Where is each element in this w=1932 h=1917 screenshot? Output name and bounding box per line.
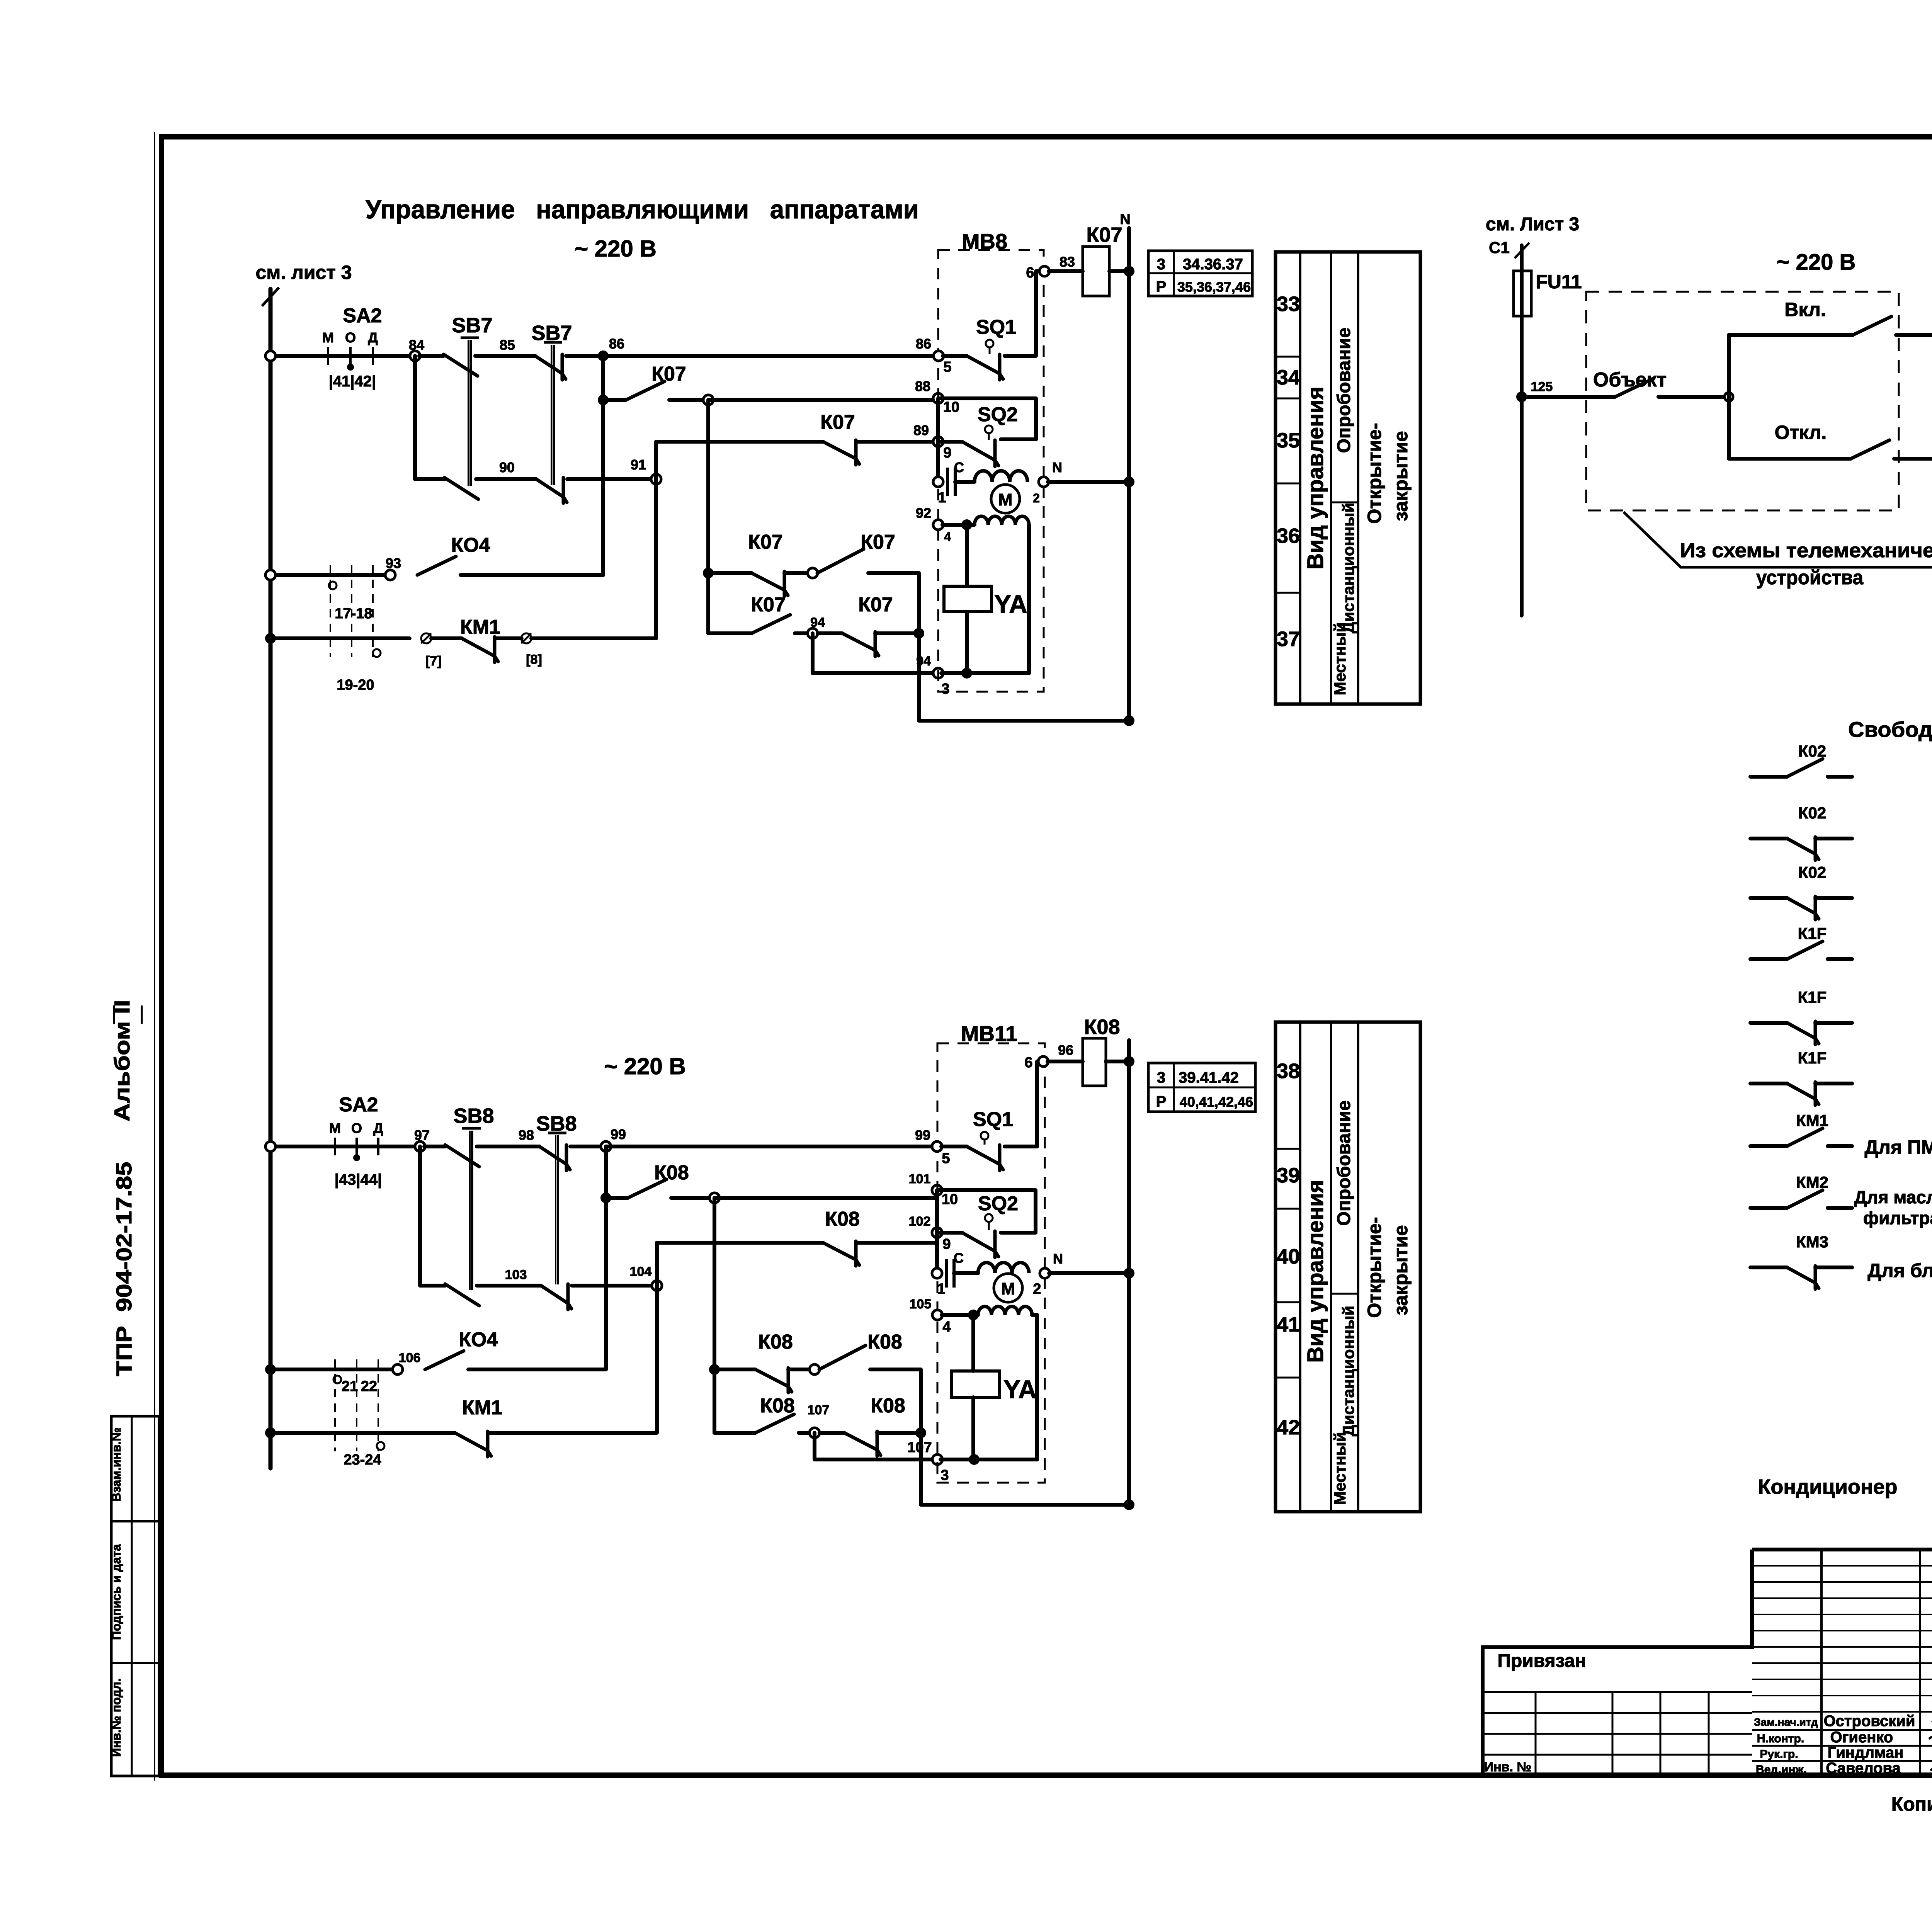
contact blade (NO) contact Объект <box>1615 378 1654 397</box>
wire free contact КМ3 col1 y3280 left lead <box>1750 1266 1787 1269</box>
svg-text:SQ2: SQ2 <box>978 403 1018 426</box>
svg-text:SA2: SA2 <box>339 1094 378 1116</box>
svg-text:Савелова: Савелова <box>1826 1760 1901 1777</box>
table row divider 3 <box>1276 1301 1300 1303</box>
label ref 39.41.42 <box>1179 1069 1239 1086</box>
svg-text:85: 85 <box>500 337 515 353</box>
svg-text:см. лист 3: см. лист 3 <box>255 262 352 283</box>
label label С1 <box>1489 238 1510 257</box>
brake solenoid YA (bottom) <box>951 1371 1000 1397</box>
node node 91 <box>651 474 661 484</box>
junction bus node KM1b <box>265 1427 276 1438</box>
wire Объект out to junction <box>1658 395 1726 399</box>
svg-text:Зам.нач.итд: Зам.нач.итд <box>1754 1716 1818 1728</box>
node node 2 b <box>1040 1268 1050 1278</box>
drawing frame border <box>162 137 1932 1775</box>
wire node107 drop to row 3777 <box>815 1433 934 1459</box>
ref box divider h <box>1148 272 1252 274</box>
label label 107 b <box>907 1439 932 1456</box>
wire free contact КМ2 col1 y3126 right lead <box>1828 1206 1852 1210</box>
svg-text:К07: К07 <box>1086 223 1122 247</box>
wire row1b SA2 to node97 <box>321 1145 420 1148</box>
wire YA bottom wire b <box>971 1397 975 1459</box>
junction N junction at coil <box>1124 266 1134 277</box>
svg-text:Привязан: Привязан <box>1497 1651 1586 1671</box>
junction node 125 <box>1516 391 1527 402</box>
node node 102 <box>932 1228 942 1238</box>
label label см. Лист 3 (right) <box>1486 214 1579 235</box>
label label 1 (cap row) <box>938 490 946 506</box>
svg-text:1: 1 <box>938 490 946 506</box>
ref box 3/Р (top circuit) <box>1148 251 1252 296</box>
junction bus node KO4b <box>265 1364 276 1375</box>
svg-text:SQ1: SQ1 <box>976 316 1016 338</box>
Альбом II underline <box>141 1006 143 1023</box>
svg-text:[7]: [7] <box>425 654 442 668</box>
svg-text:40: 40 <box>1277 1245 1300 1268</box>
label label Инв. № подл. <box>109 1678 123 1757</box>
label label Кондиционер <box>1758 1475 1897 1499</box>
svg-text:КМ3: КМ3 <box>1796 1233 1828 1251</box>
wire KM1 to node91 vertical <box>531 479 656 638</box>
svg-text:КМ1: КМ1 <box>460 616 500 638</box>
wire row2 start <box>603 398 626 402</box>
svg-text:М: М <box>329 1120 341 1136</box>
svg-text:КМ2: КМ2 <box>1796 1173 1828 1191</box>
junction YA top junction b <box>968 1310 979 1320</box>
node node 92 <box>933 520 943 530</box>
contact blade (NC) limit switch SQ1 blade <box>967 354 1003 380</box>
wire row2b after contact <box>671 1196 714 1200</box>
label note Для масляного <box>1854 1187 1932 1207</box>
label heading Свободные контакты <box>1848 717 1932 742</box>
svg-text:см. Лист 3: см. Лист 3 <box>1486 214 1579 235</box>
node node 94 at box edge <box>933 668 943 678</box>
SQ1 actuator circle (bottom) <box>981 1132 988 1145</box>
wire junction to lower branch <box>1729 397 1851 459</box>
contact blade (NC) free contact КМ3 col1 y3280 <box>1787 1266 1819 1289</box>
svg-text:96: 96 <box>1058 1042 1073 1058</box>
svg-text:К1F: К1F <box>1798 988 1827 1006</box>
svg-text:~ 220 В: ~ 220 В <box>1777 250 1856 275</box>
label ref 34.36.37 <box>1183 256 1243 273</box>
junction junction upper KO7 row <box>703 568 714 578</box>
svg-text:94: 94 <box>810 615 825 630</box>
wire row1b segment bus to SA2 <box>270 1145 321 1148</box>
wire free contact К1F col1 y2804 left lead <box>1750 1082 1787 1085</box>
node node 101 <box>932 1185 942 1195</box>
table row divider 4 <box>1276 1377 1300 1379</box>
wire row1 node84 to SB7-1 <box>419 354 444 358</box>
svg-text:~ 220 В: ~ 220 В <box>604 1053 686 1079</box>
label label SA2 <box>343 304 382 327</box>
label table row number 41 <box>1277 1313 1300 1336</box>
contact blade (NC) contact K08 parallel upper-left <box>755 1368 792 1393</box>
left margin divider 2 <box>111 1662 159 1664</box>
wire row1 85 segment <box>475 354 535 358</box>
title block signature grid verticals <box>1821 1550 1932 1776</box>
svg-text:101: 101 <box>909 1172 931 1186</box>
svg-text:2: 2 <box>1033 491 1040 505</box>
label table text Вид управления <box>1303 1180 1328 1362</box>
svg-text:106: 106 <box>399 1351 421 1365</box>
wire cap to winding b <box>954 1271 978 1275</box>
label sig label Н.контр <box>1757 1732 1804 1745</box>
svg-text:125: 125 <box>1531 379 1553 394</box>
relay coil KO7 <box>1083 247 1109 296</box>
label label 91 <box>631 457 646 473</box>
plug circle on 23-24 tick <box>377 1442 384 1450</box>
svg-text:Рук.гр.: Рук.гр. <box>1760 1748 1798 1761</box>
contact blade (NC) contact K07 row3 <box>823 440 859 465</box>
wire free contact К02 col1 y2010 right lead <box>1828 775 1852 779</box>
label label 93 <box>386 555 401 571</box>
plug circle on 21-22 tick <box>333 1376 341 1383</box>
contact blade (NC) SB8-2 lower blade <box>541 1284 571 1310</box>
label label К07 row2 <box>651 363 686 385</box>
label label SB7 (second) <box>531 321 572 345</box>
wire cap to winding <box>955 480 975 484</box>
svg-text:41: 41 <box>1277 1313 1300 1336</box>
svg-text:МВ8: МВ8 <box>962 229 1007 253</box>
label label 4 b <box>942 1319 951 1335</box>
signal table <box>1276 252 1420 704</box>
label table text Открытие- <box>1364 1217 1385 1318</box>
junction junction upper KO8 row <box>709 1364 720 1375</box>
label label N (top bus) <box>1120 211 1130 228</box>
wire row KO4b from bus <box>270 1368 398 1371</box>
svg-text:103: 103 <box>505 1267 527 1282</box>
svg-text:36: 36 <box>1277 524 1300 548</box>
table row divider 3 <box>1276 483 1300 485</box>
svg-text:93: 93 <box>386 555 401 571</box>
svg-text:Откл.: Откл. <box>1775 422 1827 443</box>
svg-text:3: 3 <box>941 681 949 697</box>
wire free contact К02 col1 y2010 left lead <box>1750 775 1787 779</box>
svg-text:К07: К07 <box>861 531 895 553</box>
svg-text:Для ПМЛ: Для ПМЛ <box>1864 1136 1932 1158</box>
node node 84 <box>410 351 420 361</box>
svg-text:Открытие-: Открытие- <box>1364 423 1385 524</box>
label label Д <box>368 330 378 345</box>
svg-text:Д: Д <box>373 1120 383 1136</box>
label label 41 42 <box>329 373 376 390</box>
label label К08 p3 <box>760 1395 795 1417</box>
svg-text:Вкл.: Вкл. <box>1784 299 1826 320</box>
svg-text:91: 91 <box>631 457 646 473</box>
svg-text:6: 6 <box>1024 1055 1032 1071</box>
wire free contact К02 col1 y2170 left lead <box>1750 837 1787 840</box>
wire row1 long line to SQ1 <box>603 354 939 358</box>
plug circle on 19-20 tick <box>373 649 381 657</box>
label label 125 <box>1531 379 1553 394</box>
svg-text:4: 4 <box>944 530 951 544</box>
wire upper row mid <box>784 571 813 575</box>
svg-text:|43|44|: |43|44| <box>335 1171 382 1188</box>
label label ~220 B (right) <box>1777 250 1856 275</box>
table row divider 2 <box>1276 398 1300 400</box>
svg-text:устройства: устройства <box>1756 566 1864 589</box>
wire SQ1b out to node6 <box>1005 1061 1040 1146</box>
winding motor main winding (top) <box>975 471 1027 482</box>
wire free contact К02 col1 y2324 right lead <box>1815 896 1852 900</box>
svg-text:104: 104 <box>630 1264 652 1279</box>
label label 99 (SQ1 b) <box>915 1127 930 1143</box>
label label 2 <box>1033 491 1040 505</box>
wire lower row right mid <box>818 631 842 635</box>
svg-text:107: 107 <box>808 1403 830 1417</box>
node node 1 b <box>932 1268 942 1278</box>
svg-text:9: 9 <box>942 1236 951 1252</box>
contact blade (NC) pushbutton SB8-2 row1 blade <box>539 1145 570 1170</box>
contact blade SB7-1 lower blade (90) <box>444 478 478 499</box>
table row divider 1 <box>1276 356 1300 358</box>
label label N (node2 b) <box>1053 1251 1063 1267</box>
svg-text:Р: Р <box>1156 278 1167 295</box>
wire row KO4b to vertical <box>468 1368 606 1371</box>
SQ2 actuator circle <box>985 425 993 440</box>
label label Инв. № <box>1484 1760 1532 1774</box>
svg-text:[8]: [8] <box>526 652 542 667</box>
svg-text:фильтра: фильтра <box>1863 1208 1932 1228</box>
contact blade (NO) contact K07 parallel upper-right <box>817 549 864 573</box>
wire row3b after contact <box>856 1241 937 1245</box>
svg-text:10: 10 <box>942 1191 958 1208</box>
svg-text:FU11: FU11 <box>1536 271 1582 293</box>
actuator block MB11 dashed outline <box>937 1043 1045 1483</box>
label label 17-18 <box>335 606 372 622</box>
label label К08 p4 <box>871 1395 905 1417</box>
node node 86 at box edge (5) <box>934 351 944 361</box>
label label Привязан <box>1497 1651 1586 1671</box>
svg-text:Открытие-: Открытие- <box>1364 1217 1385 1318</box>
table col3 divider <box>1331 502 1358 503</box>
svg-text:SB8: SB8 <box>453 1104 494 1128</box>
wire SQ2b bottom right <box>1001 1231 1036 1235</box>
label note фильтра <box>1863 1208 1932 1228</box>
wire KO7 coil to N bus <box>1109 269 1129 273</box>
wire row1b 98 segment <box>477 1145 539 1148</box>
label label К08 p1 <box>758 1331 793 1353</box>
svg-text:5: 5 <box>942 1150 950 1167</box>
wire upper KO7 row start <box>708 571 752 575</box>
wire row1 to node 84 <box>390 354 415 358</box>
plug symbol left of KM1 <box>421 633 431 643</box>
wire free contact К1F col1 y2647 left lead <box>1750 1021 1787 1025</box>
label margin text Альбом II <box>110 1000 134 1122</box>
contact blade (NO) contact K08 parallel upper-right <box>819 1345 866 1369</box>
pushbutton SB7-2 actuator bar <box>544 342 562 485</box>
label label 21-22 <box>342 1378 377 1395</box>
wire row3 after contact <box>856 440 938 444</box>
label label 9 <box>943 445 951 461</box>
pushbutton SB7-1 actuator bar <box>461 338 479 486</box>
node junction Объект out <box>1725 393 1733 401</box>
junction N junction row C b <box>1124 1268 1134 1279</box>
wire free contact КМ3 col1 y3280 right lead <box>1815 1266 1852 1269</box>
label label 4 <box>944 530 951 544</box>
pushbutton SB8-2 actuator bar <box>548 1133 566 1284</box>
label label КО4 <box>451 534 490 556</box>
label label К1F (free contact К1F col1 y2482) <box>1798 924 1827 942</box>
label label КМ3 (free contact КМ3 col1 y3280) <box>1796 1233 1828 1251</box>
ref box divider h b <box>1148 1087 1255 1089</box>
wire node6 to KO7 coil <box>1049 269 1083 273</box>
label sig label Вед.инж. <box>1756 1763 1807 1776</box>
svg-text:33: 33 <box>1277 293 1300 316</box>
wire 92 row <box>942 523 975 527</box>
wire upper row drop <box>919 573 1129 721</box>
svg-text:37: 37 <box>1277 628 1300 651</box>
label table row number 35 <box>1277 429 1300 452</box>
junction bus node KM1 row <box>265 633 276 644</box>
wire KM1 segment <box>431 636 462 640</box>
label label 2 b <box>1033 1281 1041 1297</box>
svg-text:YA: YA <box>994 590 1027 618</box>
wire KO8 coil to N bus <box>1106 1060 1129 1063</box>
svg-text:N: N <box>1053 1251 1063 1267</box>
Привязан block grid <box>1483 1692 1752 1776</box>
wire lower KO8 right mid <box>820 1431 844 1435</box>
wire row KO4 to vertical <box>461 573 603 577</box>
contact blade (NC) pushbutton SB7-2 row1 blade <box>535 354 566 380</box>
svg-text:84: 84 <box>409 337 424 353</box>
junction junction lower KO8 right <box>915 1427 926 1438</box>
wire row90 to node 91 <box>567 477 656 481</box>
ref box divider v <box>1173 251 1175 296</box>
wire SQ1b left segment <box>941 1145 967 1148</box>
svg-text:Свободные контакты: Свободные контакты <box>1848 717 1932 742</box>
node node 106 <box>393 1364 403 1374</box>
label table text Дистанционный <box>1339 1306 1357 1436</box>
label label М (bottom) <box>329 1120 341 1136</box>
wire YA branch vertical <box>965 525 969 586</box>
capacitor C plates (bottom) <box>946 1259 954 1288</box>
svg-text:1: 1 <box>937 1281 945 1297</box>
contact blade (NO) contact K08 row2 <box>628 1179 667 1198</box>
continuation slash on C1 line <box>1515 243 1529 258</box>
label label Взам. инв. № <box>109 1427 123 1502</box>
contact blade (NC) limit switch SQ2 blade (bottom) <box>962 1231 998 1257</box>
label label 96 <box>1058 1042 1073 1058</box>
contact blade (NC) SB7-2 lower blade <box>536 478 567 503</box>
winding motor aux winding (bottom) <box>978 1306 1032 1315</box>
label label C <box>954 459 964 475</box>
label table row number 36 <box>1277 524 1300 548</box>
label label 84 <box>409 337 424 353</box>
label label К02 (free contact К02 col1 y2324) <box>1798 863 1826 881</box>
node junction node row2 <box>703 395 713 405</box>
svg-text:КО4: КО4 <box>459 1328 498 1351</box>
svg-text:N: N <box>1052 459 1062 475</box>
label label 88 <box>915 378 930 394</box>
contact blade (NC) contact K08 parallel lower-right <box>844 1431 881 1456</box>
bus 1 (left vertical feeder) <box>269 289 273 1468</box>
wire free contact К1F col1 y2482 right lead <box>1828 957 1852 961</box>
contact blade (NO) contact KO4 (bottom) <box>425 1351 464 1369</box>
label title Управление направляющими аппаратами <box>366 195 919 224</box>
label label 97 <box>414 1127 430 1143</box>
wire node2b to N bus <box>1049 1271 1129 1275</box>
wire junction to upper branch <box>1729 335 1853 397</box>
label label 94 <box>916 654 931 668</box>
table row divider 4 <box>1276 592 1300 594</box>
signatures (cursive strokes) <box>1929 1718 1932 1772</box>
label label SQ1 <box>976 316 1016 338</box>
node node 97 <box>415 1141 425 1152</box>
ref box 3/Р (bottom circuit) <box>1148 1063 1255 1112</box>
svg-text:YA: YA <box>1003 1375 1037 1403</box>
svg-text:23-24: 23-24 <box>344 1452 381 1468</box>
svg-text:105: 105 <box>910 1297 932 1311</box>
svg-text:SB7: SB7 <box>531 321 572 345</box>
svg-text:N: N <box>1120 211 1130 228</box>
node node 1 <box>933 477 943 487</box>
svg-text:Взам.инв.№: Взам.инв.№ <box>109 1427 123 1502</box>
svg-text:Подпись и дата: Подпись и дата <box>109 1544 123 1640</box>
wire SQ1 left segment <box>943 354 967 358</box>
plug symbol right of KM1 <box>521 633 531 643</box>
svg-text:КМ1: КМ1 <box>462 1397 502 1419</box>
svg-text:Островский: Островский <box>1824 1713 1915 1730</box>
label label К02 (free contact К02 col1 y2170) <box>1798 804 1826 822</box>
table row divider 1 <box>1276 1148 1300 1150</box>
wire SQ1 out to node6 <box>1005 271 1041 356</box>
label label Вкл. <box>1784 299 1826 320</box>
sheet cut line (thin, left) <box>154 132 155 1781</box>
signal table <box>1276 1022 1420 1512</box>
label label [7] (KM1 row) <box>425 654 442 668</box>
wire node6b to KO8 coil <box>1048 1060 1083 1063</box>
wire upper KO8 mid <box>788 1368 815 1371</box>
label label ~220 B (bottom circuit) <box>604 1053 686 1079</box>
label ref 40,41,42,46 <box>1180 1094 1253 1110</box>
svg-text:35: 35 <box>1277 429 1300 452</box>
N bus vertical (top circuit) <box>1127 228 1131 721</box>
label table text закрытие <box>1390 431 1412 521</box>
label label N (node2) <box>1052 459 1062 475</box>
label label 107 (small) <box>808 1403 830 1417</box>
wire 105 row <box>942 1313 978 1317</box>
label label 9 b <box>942 1236 951 1252</box>
node node 6 b <box>1038 1056 1048 1067</box>
label label 23-24 <box>344 1452 381 1468</box>
svg-text:КО4: КО4 <box>451 534 490 556</box>
svg-text:2: 2 <box>1033 1281 1041 1297</box>
wire row90 mid <box>476 477 536 481</box>
junction junction row2 start <box>598 395 609 405</box>
wire SQ2 bottom right <box>1001 437 1036 441</box>
table col divider 1 <box>1299 1022 1301 1512</box>
label label YA (top) <box>994 590 1027 618</box>
svg-text:Объект: Объект <box>1593 369 1667 391</box>
label table row number 38 <box>1277 1060 1300 1083</box>
svg-text:Р: Р <box>1156 1093 1167 1110</box>
label label 105 <box>910 1297 932 1311</box>
wire upper KO8 row start <box>714 1368 755 1371</box>
motor M (top circuit) <box>991 485 1020 513</box>
label table row number 34 <box>1277 366 1300 389</box>
wire row1b to node 99 <box>570 1145 606 1148</box>
svg-text:34: 34 <box>1277 366 1300 389</box>
svg-text:34.36.37: 34.36.37 <box>1183 256 1243 273</box>
svg-text:3: 3 <box>1157 256 1165 273</box>
svg-text:|41|42|: |41|42| <box>329 373 376 390</box>
wire aux winding right side <box>1027 525 1031 673</box>
label label 6 b <box>1024 1055 1032 1071</box>
svg-text:К08: К08 <box>654 1162 689 1184</box>
label label К08 coil <box>1084 1015 1120 1039</box>
